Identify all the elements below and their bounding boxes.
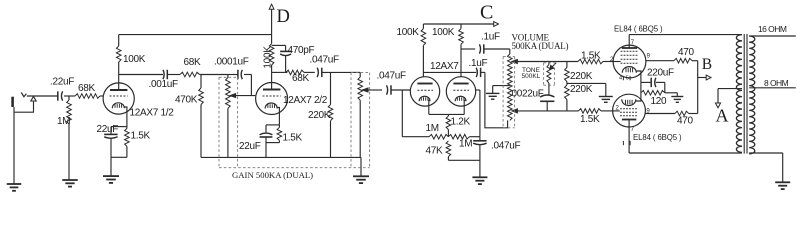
svg-text:.047uF: .047uF <box>377 70 407 81</box>
svg-text:.1uF: .1uF <box>481 31 500 42</box>
svg-text:470: 470 <box>677 116 694 127</box>
svg-text:D: D <box>277 7 290 27</box>
svg-text:12AX7: 12AX7 <box>430 61 459 72</box>
svg-text:1.5K: 1.5K <box>581 51 601 62</box>
svg-text:1M: 1M <box>57 116 70 127</box>
svg-text:1.5K: 1.5K <box>580 114 600 125</box>
svg-text:C: C <box>480 2 493 24</box>
svg-text:.0022uF: .0022uF <box>509 89 544 100</box>
svg-text:220uF: 220uF <box>647 67 674 78</box>
svg-text:100K: 100K <box>397 27 420 38</box>
svg-text:B: B <box>702 56 712 73</box>
svg-text:500KA (DUAL): 500KA (DUAL) <box>512 41 569 51</box>
svg-text:68K: 68K <box>292 73 310 84</box>
svg-text:22uF: 22uF <box>239 141 261 152</box>
svg-text:470K: 470K <box>175 95 198 106</box>
svg-text:A: A <box>716 106 729 126</box>
svg-text:12AX7 2/2: 12AX7 2/2 <box>283 95 328 106</box>
svg-text:68K: 68K <box>184 57 202 68</box>
svg-text:470: 470 <box>678 47 695 58</box>
svg-text:220K: 220K <box>570 84 593 95</box>
svg-text:1.5K: 1.5K <box>283 133 303 144</box>
svg-text:100K: 100K <box>123 54 146 65</box>
svg-text:.0001uF: .0001uF <box>214 57 249 68</box>
svg-text:1.5K: 1.5K <box>131 131 151 142</box>
svg-text:68K: 68K <box>78 83 96 94</box>
svg-text:.047uF: .047uF <box>491 141 521 152</box>
svg-text:1.2K: 1.2K <box>451 117 471 128</box>
svg-text:4: 4 <box>619 76 622 82</box>
svg-text:120: 120 <box>651 96 668 107</box>
svg-text:220K: 220K <box>308 110 331 121</box>
svg-text:.1uF: .1uF <box>469 58 488 69</box>
svg-text:1M: 1M <box>426 123 439 134</box>
svg-text:5: 5 <box>626 76 629 82</box>
svg-text:.001uF: .001uF <box>149 79 179 90</box>
svg-text:EL84 ( 6BQ5 ): EL84 ( 6BQ5 ) <box>614 25 663 34</box>
svg-text:1M: 1M <box>459 138 472 149</box>
svg-text:.047uF: .047uF <box>310 55 340 66</box>
svg-text:100K: 100K <box>432 27 455 38</box>
svg-text:8 OHM: 8 OHM <box>764 78 789 88</box>
svg-text:12AX7 1/2: 12AX7 1/2 <box>130 108 175 119</box>
svg-text:22uF: 22uF <box>97 124 119 135</box>
svg-text:16 OHM: 16 OHM <box>758 24 787 34</box>
svg-text:500KL: 500KL <box>522 73 541 80</box>
svg-text:220K: 220K <box>570 71 593 82</box>
svg-text:47K: 47K <box>426 146 444 157</box>
svg-text:.22uF: .22uF <box>50 77 74 88</box>
svg-text:EL84 ( 6BQ5 ): EL84 ( 6BQ5 ) <box>633 133 682 142</box>
svg-text:GAIN 500KA (DUAL): GAIN 500KA (DUAL) <box>232 170 313 180</box>
